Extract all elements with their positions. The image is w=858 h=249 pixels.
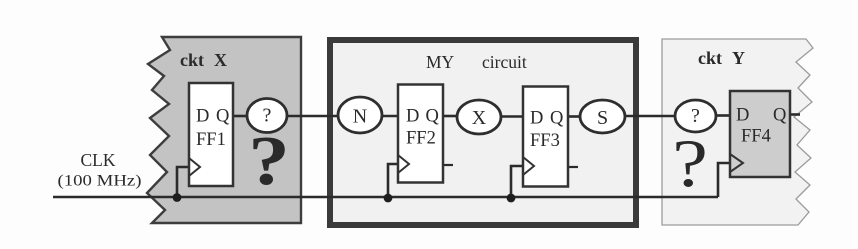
wire node S to node ?2 <box>624 115 676 118</box>
svg-text:Y: Y <box>732 48 745 68</box>
label ckt X <box>180 50 227 70</box>
svg-text:Q: Q <box>773 106 787 126</box>
node N <box>338 97 382 133</box>
svg-text:D: D <box>196 107 209 127</box>
flip-flop FF4 (gray) <box>730 91 790 177</box>
svg-text:Q: Q <box>426 107 440 127</box>
svg-text:FF4: FF4 <box>741 127 771 147</box>
svg-text:FF2: FF2 <box>406 129 436 149</box>
wire FF1.Q to node ?1 <box>233 115 248 118</box>
svg-text:Q: Q <box>216 107 230 127</box>
node ?1 (oval in ckt X) <box>247 99 287 133</box>
wire FF2 Qbar stub <box>443 164 453 166</box>
svg-text:?: ? <box>248 122 289 200</box>
wire FF3 Qbar stub <box>568 166 578 168</box>
svg-text:FF3: FF3 <box>530 131 560 151</box>
svg-text:S: S <box>597 107 608 129</box>
svg-text:ckt: ckt <box>698 48 722 68</box>
wire FF3.Q to node S <box>568 115 581 118</box>
node S <box>580 100 625 133</box>
big question mark in ckt Y <box>672 127 708 202</box>
big question mark in ckt X <box>248 122 289 200</box>
label MY circuit <box>426 52 527 72</box>
svg-text:MY: MY <box>426 52 455 72</box>
box ckt X (torn left edge) <box>147 37 301 223</box>
junction dot at FF3 clock tap <box>507 194 516 203</box>
wire clock riser to FF1 <box>177 167 189 197</box>
label CLK (100 MHz) <box>58 150 142 190</box>
svg-text:D: D <box>406 107 419 127</box>
flip-flop FF3 <box>523 87 568 187</box>
flip-flop FF2 <box>398 85 443 183</box>
svg-text:D: D <box>736 106 749 126</box>
wire clock riser to FF3 <box>511 166 523 197</box>
node X <box>457 100 501 134</box>
svg-text:D: D <box>530 109 543 129</box>
svg-text:(100 MHz): (100 MHz) <box>58 173 142 190</box>
svg-text:FF1: FF1 <box>196 130 226 150</box>
wire CLK main line <box>53 196 718 199</box>
wire node N to FF2.D <box>381 115 398 118</box>
svg-text:CLK: CLK <box>81 150 116 170</box>
wire clock riser to FF2 <box>388 164 398 197</box>
junction dot at FF2 clock tap <box>384 194 393 203</box>
box ckt Y (torn right edge) <box>662 39 813 225</box>
junction dot at FF1 clock tap <box>173 193 182 202</box>
wire FF2.Q to node X <box>443 115 458 118</box>
wire node ?2 to FF4.D <box>715 114 730 117</box>
svg-text:?: ? <box>672 127 708 202</box>
flip-flop FF1 <box>189 83 233 186</box>
wire node X to FF3.D <box>500 115 523 118</box>
svg-text:Q: Q <box>550 109 564 129</box>
svg-text:X: X <box>214 50 227 70</box>
wire FF4.Q output <box>790 113 800 116</box>
box MY circuit (thick border) <box>330 40 636 225</box>
svg-text:X: X <box>472 107 487 129</box>
svg-text:circuit: circuit <box>482 52 527 72</box>
wire node ?1 to node N <box>287 115 339 118</box>
node ?2 (oval in ckt Y) <box>675 100 716 132</box>
svg-text:?: ? <box>691 105 700 127</box>
label ckt Y <box>698 48 745 68</box>
svg-text:N: N <box>353 106 367 128</box>
svg-text:ckt: ckt <box>180 50 204 70</box>
wire clock riser to FF4 <box>718 163 730 197</box>
